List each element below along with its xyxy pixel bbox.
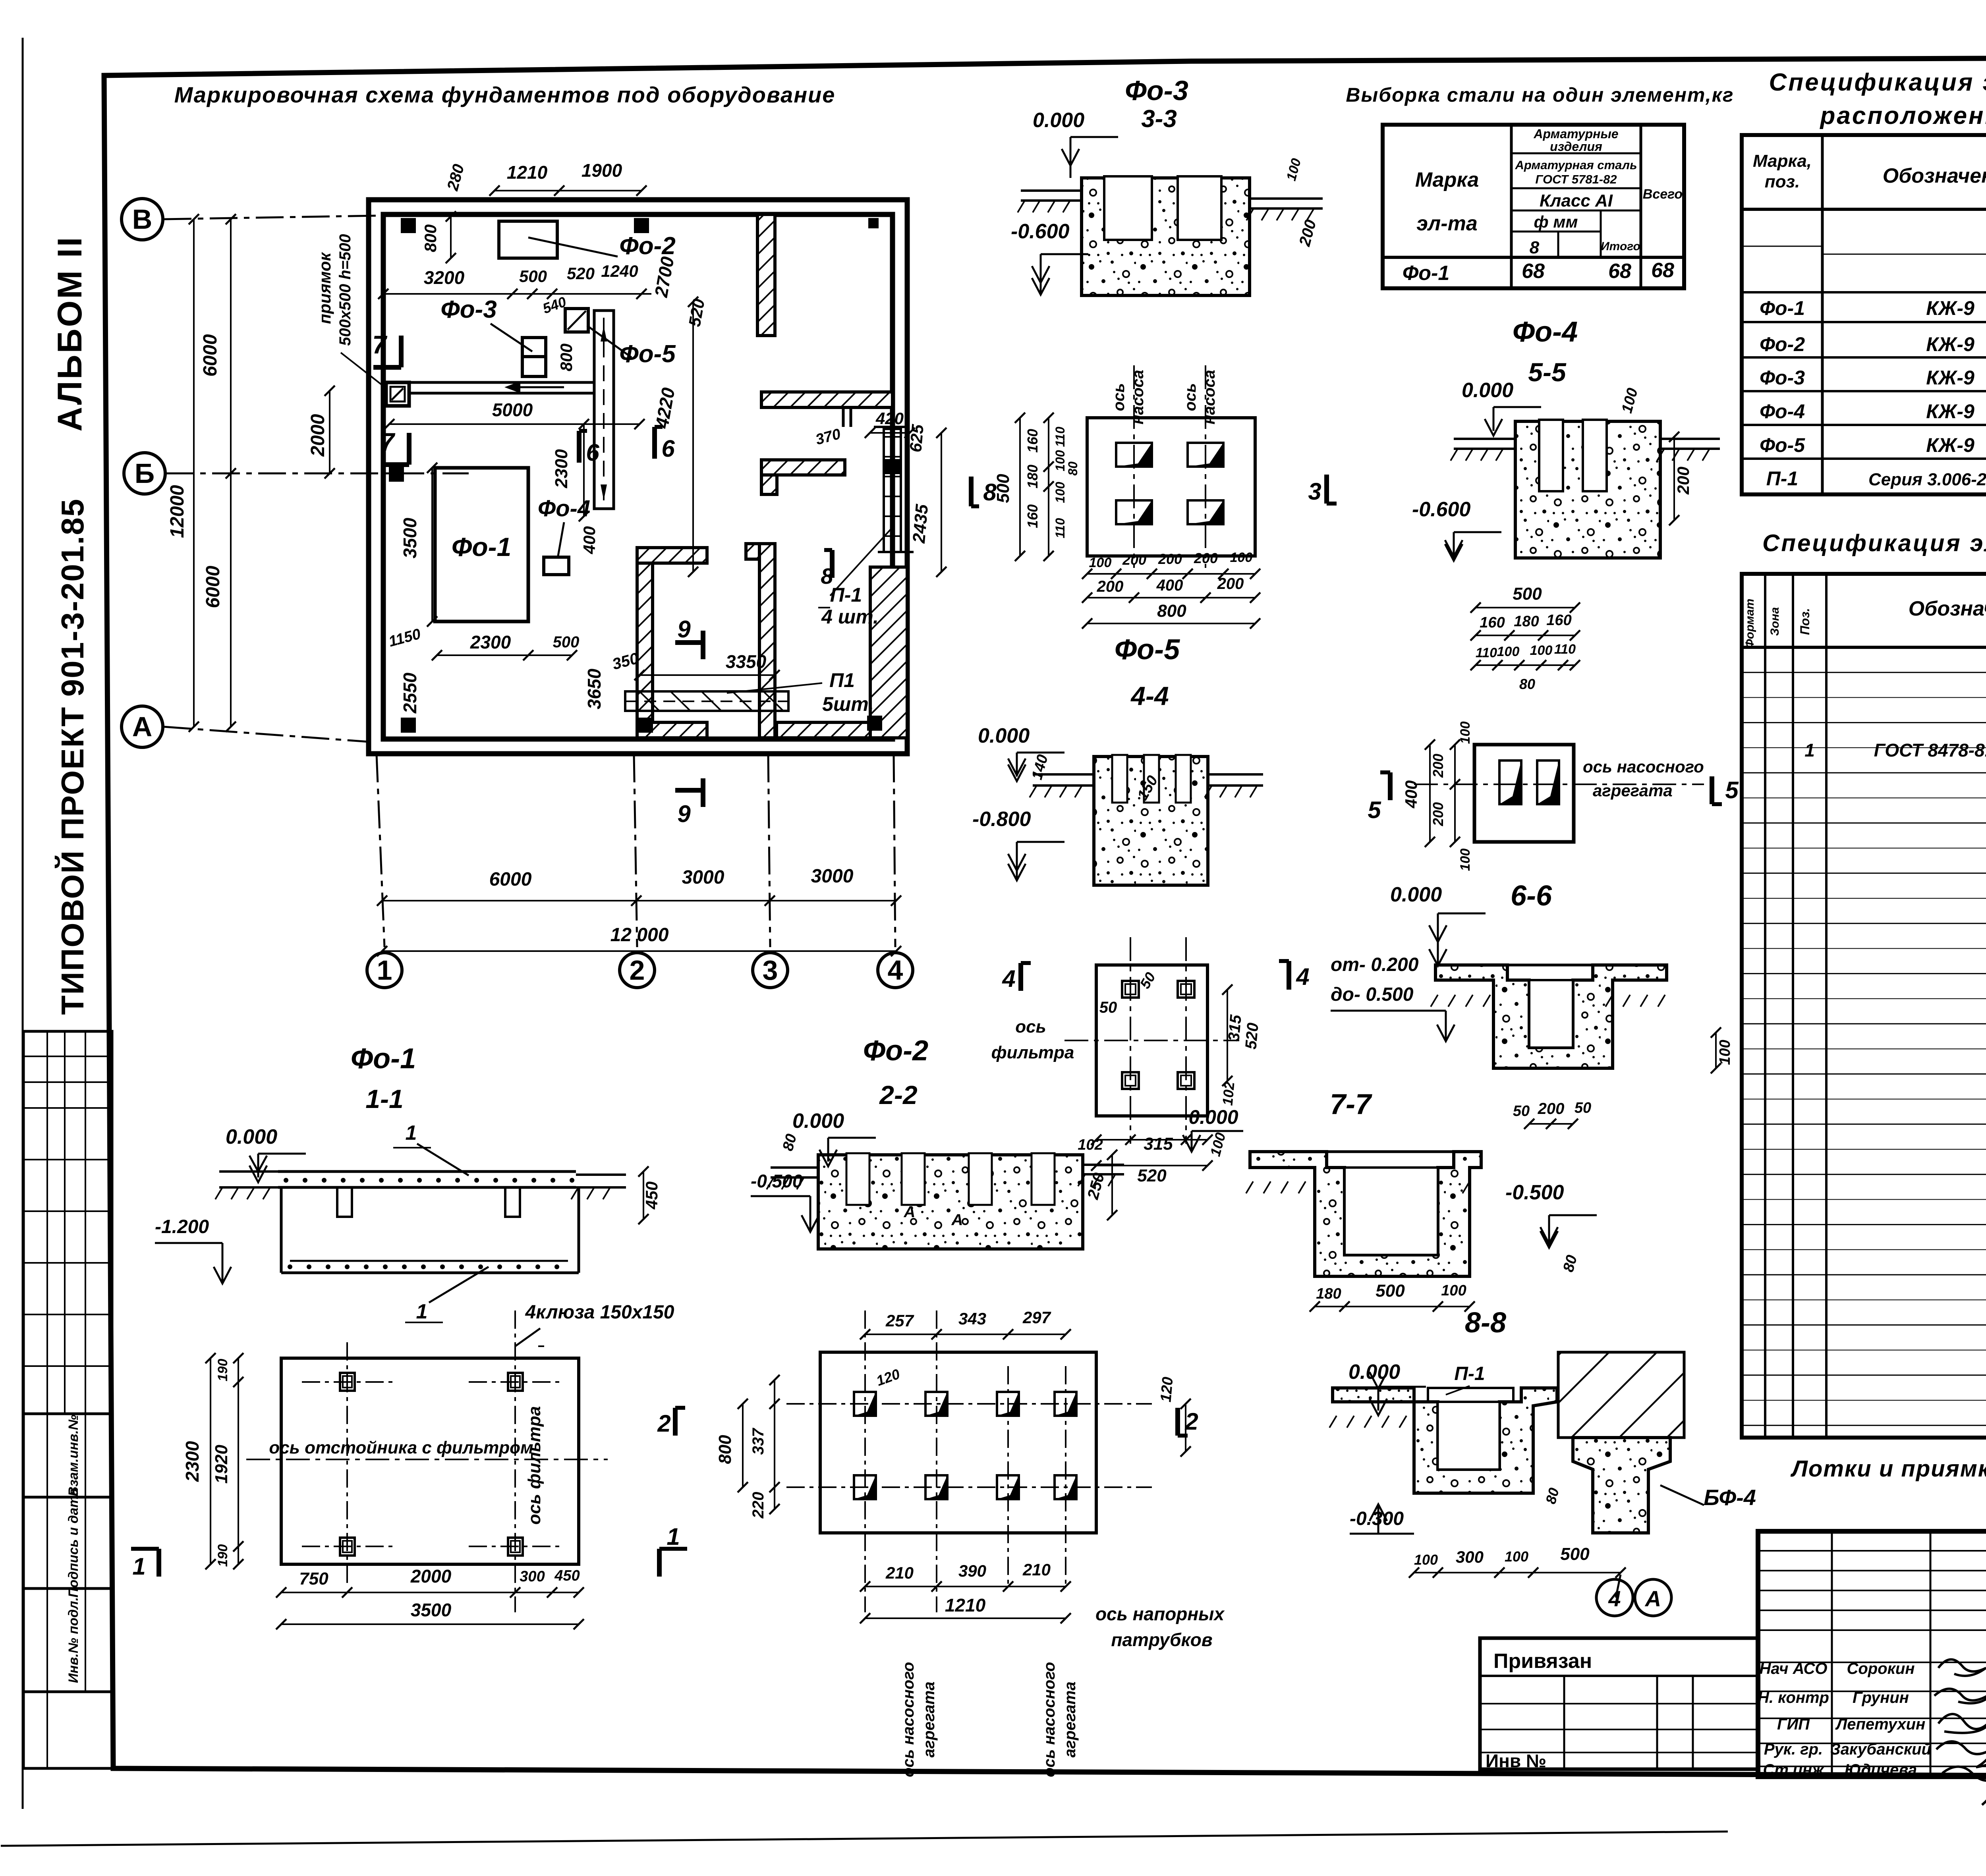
svg-text:180: 180 <box>1316 1285 1341 1302</box>
svg-text:80: 80 <box>1519 676 1535 692</box>
svg-text:1: 1 <box>406 1121 417 1145</box>
svg-text:120: 120 <box>1157 1376 1176 1403</box>
svg-text:1900: 1900 <box>582 160 622 181</box>
channel arrow <box>516 386 564 388</box>
svg-text:100: 100 <box>1053 482 1067 503</box>
svg-text:фильтра: фильтра <box>991 1043 1074 1062</box>
plan Fo-5 bottom dims <box>1087 573 1255 575</box>
svg-text:8: 8 <box>1530 238 1540 257</box>
svg-text:ГИП: ГИП <box>1777 1716 1810 1733</box>
svg-text:приямок: приямок <box>315 252 334 324</box>
svg-text:4: 4 <box>1002 965 1015 992</box>
P-1 slab on trench <box>1428 1388 1513 1402</box>
svg-text:50: 50 <box>1575 1100 1591 1116</box>
bottom dim line total <box>382 950 896 952</box>
svg-text:Фо-2: Фо-2 <box>619 232 675 260</box>
svg-text:агрегата: агрегата <box>1593 781 1673 800</box>
svg-text:500: 500 <box>553 633 580 651</box>
plan filtra rect <box>1096 965 1207 1116</box>
svg-text:160: 160 <box>1024 429 1041 453</box>
svg-text:Юдичева: Юдичева <box>1845 1761 1917 1779</box>
section marker 9 lower <box>675 788 703 793</box>
foundation Fo-2 rectangle <box>499 221 557 258</box>
svg-text:Фо-1: Фо-1 <box>351 1043 416 1075</box>
svg-text:БФ-4: БФ-4 <box>1704 1485 1756 1510</box>
svg-text:750: 750 <box>299 1569 328 1588</box>
svg-text:эл-та: эл-та <box>1416 212 1478 235</box>
svg-text:68: 68 <box>1522 260 1545 283</box>
svg-text:100: 100 <box>1717 1040 1733 1065</box>
svg-text:Арматурные: Арматурные <box>1533 127 1618 141</box>
svg-text:-0.500: -0.500 <box>1505 1181 1564 1204</box>
wall right side L <box>870 567 907 738</box>
svg-text:АЛЬБОМ II: АЛЬБОМ II <box>51 235 89 431</box>
svg-text:ось насосного: ось насосного <box>900 1662 917 1777</box>
masonry wall above <box>1558 1352 1684 1438</box>
svg-text:Лотки и приямки выполнить из: Лотки и приямки выполнить из бетона марк… <box>1790 1456 1986 1482</box>
svg-text:2300: 2300 <box>182 1441 203 1482</box>
svg-text:Привязан: Привязан <box>1493 1650 1592 1673</box>
svg-text:-1.200: -1.200 <box>155 1216 209 1237</box>
section 6-6 floors <box>1435 965 1667 1068</box>
spec1 header row line <box>1742 208 1986 211</box>
svg-text:400: 400 <box>580 526 599 554</box>
axis line 2 <box>634 755 637 947</box>
section 1-1 top slab <box>278 1170 576 1173</box>
plan filtra bottom dims <box>1096 1139 1207 1141</box>
svg-text:1: 1 <box>416 1300 428 1323</box>
svg-text:Фо-4: Фо-4 <box>1760 400 1805 423</box>
svg-text:0.000: 0.000 <box>978 724 1030 747</box>
svg-text:110: 110 <box>1053 518 1067 538</box>
svg-text:поз.: поз. <box>1765 172 1800 191</box>
svg-text:100: 100 <box>1053 450 1067 471</box>
svg-text:2-2: 2-2 <box>879 1080 918 1110</box>
section 3-3 floor right <box>1250 197 1323 200</box>
svg-text:Арматурная сталь: Арматурная сталь <box>1515 158 1637 172</box>
svg-text:КЖ-9: КЖ-9 <box>1926 434 1974 456</box>
svg-text:КЖ-9: КЖ-9 <box>1926 400 1974 423</box>
wall T right middle horizontal <box>761 392 893 407</box>
svg-text:5шт.: 5шт. <box>822 693 874 715</box>
svg-text:1: 1 <box>1804 740 1815 760</box>
svg-text:102: 102 <box>1078 1137 1103 1153</box>
svg-text:Марка: Марка <box>1415 168 1479 191</box>
svg-text:1920: 1920 <box>212 1445 231 1484</box>
axis line A <box>164 727 369 742</box>
Fo-1 plan left dims <box>210 1358 211 1564</box>
svg-text:ось насосного: ось насосного <box>1583 757 1704 776</box>
left dim line outer <box>193 219 195 727</box>
svg-text:П-1: П-1 <box>830 584 862 606</box>
svg-text:0.000: 0.000 <box>226 1125 277 1148</box>
svg-text:2435: 2435 <box>909 503 932 544</box>
sidebar small stamp grid <box>23 1031 112 1414</box>
svg-text:500: 500 <box>993 474 1013 503</box>
section 3-3 floor left <box>1021 189 1082 192</box>
svg-text:102: 102 <box>1219 1081 1238 1106</box>
section marker 7 lower <box>407 433 411 465</box>
section 2-2 floor left <box>771 1166 818 1169</box>
svg-text:68: 68 <box>1608 260 1631 283</box>
sidebar box Podpis i data <box>23 1497 112 1588</box>
plan dim 2300 bottom <box>437 654 572 656</box>
column black squares <box>401 218 416 233</box>
svg-text:9: 9 <box>677 616 691 643</box>
title block outer <box>1758 1531 1986 1777</box>
svg-text:110: 110 <box>1554 642 1576 657</box>
spec2 thin row lines <box>1742 672 1986 673</box>
svg-text:210: 210 <box>1022 1560 1051 1579</box>
plan dim 1210 1900 <box>495 190 641 191</box>
svg-text:Маркировочная схема фундаменто: Маркировочная схема фундаментов под обор… <box>174 82 836 107</box>
svg-text:180: 180 <box>1514 613 1539 630</box>
marker 5 right <box>1710 776 1714 804</box>
svg-text:315: 315 <box>1225 1014 1245 1042</box>
svg-text:Обозначение: Обозначение <box>1909 597 1986 620</box>
wall hatch top-right vertical <box>757 214 775 336</box>
svg-text:0.000: 0.000 <box>1390 883 1442 906</box>
svg-text:210: 210 <box>885 1563 914 1582</box>
svg-text:изделия: изделия <box>1550 139 1602 154</box>
spec1 box <box>1742 135 1986 494</box>
sidebar box Inv N podl <box>23 1588 112 1692</box>
svg-text:80: 80 <box>1066 461 1080 476</box>
svg-text:520: 520 <box>1242 1022 1262 1050</box>
svg-text:Фо-1: Фо-1 <box>452 532 512 562</box>
svg-text:100: 100 <box>1530 643 1553 658</box>
svg-text:Н. контр: Н. контр <box>1758 1689 1829 1706</box>
section 7-7 body <box>1250 1152 1481 1276</box>
svg-text:200: 200 <box>1674 467 1692 495</box>
svg-text:В: В <box>132 204 153 235</box>
svg-text:520: 520 <box>1137 1166 1167 1185</box>
svg-text:1: 1 <box>377 955 392 986</box>
svg-text:343: 343 <box>958 1309 986 1328</box>
svg-text:5000: 5000 <box>492 400 533 420</box>
svg-text:Зона: Зона <box>1768 607 1781 636</box>
svg-text:А: А <box>1644 1586 1661 1611</box>
svg-text:расположенной на данном листе: расположенной на данном листе <box>1820 102 1986 129</box>
svg-text:160: 160 <box>1480 614 1505 631</box>
svg-text:0.000: 0.000 <box>1462 379 1513 402</box>
svg-text:Фо-5: Фо-5 <box>1115 634 1180 666</box>
svg-text:до- 0.500: до- 0.500 <box>1331 984 1414 1005</box>
section 2-2 concrete <box>818 1155 1083 1249</box>
svg-text:Нач АСО: Нач АСО <box>1760 1660 1828 1677</box>
marker 2 left <box>673 1408 678 1436</box>
svg-text:-0.800: -0.800 <box>972 808 1031 831</box>
svg-text:Ст.инж: Ст.инж <box>1763 1761 1825 1779</box>
svg-text:6000: 6000 <box>203 566 224 608</box>
svg-text:0.000: 0.000 <box>792 1110 844 1133</box>
section marker 9 upper <box>675 640 703 645</box>
P-1 ladder right side <box>884 429 901 552</box>
svg-text:Формат: Формат <box>1743 598 1756 648</box>
marker 1 bottom-right <box>657 1549 662 1577</box>
svg-text:ось: ось <box>1015 1017 1046 1036</box>
svg-text:3000: 3000 <box>811 866 854 887</box>
section 7-7 bottom dims <box>1315 1306 1470 1307</box>
svg-text:68: 68 <box>1651 259 1674 282</box>
svg-text:Фо-3: Фо-3 <box>440 296 496 323</box>
foundation Fo-4 rectangle <box>544 557 569 575</box>
Fo-4 plan axis line <box>1414 784 1704 785</box>
svg-text:2: 2 <box>1184 1408 1198 1435</box>
svg-text:300: 300 <box>1456 1548 1484 1566</box>
svg-text:Спецификация элементов к марки: Спецификация элементов к маркировочной с… <box>1769 69 1986 96</box>
plan Fo-5 slots <box>1116 443 1152 467</box>
section marker 8 plan <box>830 550 835 578</box>
Fo-2 plan left dims <box>742 1404 744 1487</box>
svg-text:300: 300 <box>520 1568 545 1585</box>
svg-text:200: 200 <box>1097 578 1124 595</box>
pit priamok <box>386 382 409 406</box>
Fo-2 plan axis lines <box>864 1310 866 1612</box>
svg-text:Обозначение: Обозначение <box>1883 164 1986 187</box>
svg-text:6: 6 <box>586 439 599 466</box>
svg-text:ф мм: ф мм <box>1534 212 1578 231</box>
svg-text:9: 9 <box>677 801 691 827</box>
wall right middle lower <box>761 460 845 475</box>
plan Fo-5 left dims <box>1019 418 1021 556</box>
svg-text:160: 160 <box>1024 504 1041 528</box>
svg-text:160: 160 <box>1546 612 1571 629</box>
svg-text:6000: 6000 <box>200 334 221 376</box>
svg-text:ГОСТ 8478-81: ГОСТ 8478-81 <box>1874 740 1986 760</box>
axis line V <box>164 215 401 219</box>
svg-text:2000: 2000 <box>307 414 328 457</box>
svg-text:Фо-3: Фо-3 <box>1125 75 1188 106</box>
svg-text:1240: 1240 <box>601 262 638 280</box>
marker 1 bottom-left <box>156 1549 161 1577</box>
svg-text:агрегата: агрегата <box>920 1681 938 1757</box>
Fo-2 plan bottom dims <box>865 1586 1066 1587</box>
svg-text:Серия 3.006-2 в II-2: Серия 3.006-2 в II-2 <box>1868 470 1986 489</box>
svg-text:Сорокин: Сорокин <box>1847 1660 1915 1677</box>
Fo-4 plan rect <box>1474 745 1574 842</box>
Fo-2 plan top dims <box>865 1334 1066 1335</box>
svg-text:Фо-5: Фо-5 <box>1760 434 1805 456</box>
svg-text:П1: П1 <box>829 669 855 691</box>
spec1 row lines <box>1742 291 1986 293</box>
svg-text:7: 7 <box>380 428 396 456</box>
svg-text:400: 400 <box>1402 780 1420 809</box>
svg-text:520: 520 <box>567 264 595 283</box>
svg-text:Марка,: Марка, <box>1753 151 1812 171</box>
sidebar box Vzam inv <box>23 1414 112 1497</box>
svg-text:5-5: 5-5 <box>1528 357 1567 387</box>
svg-text:1: 1 <box>132 1553 145 1580</box>
axis line 4 <box>894 755 895 947</box>
svg-text:800: 800 <box>557 344 576 371</box>
svg-text:200: 200 <box>1217 575 1244 593</box>
svg-text:4-4: 4-4 <box>1130 681 1169 710</box>
foundation Fo-3 squares <box>522 338 546 357</box>
svg-text:Всего: Всего <box>1643 187 1683 202</box>
svg-text:800: 800 <box>715 1435 735 1464</box>
svg-text:4: 4 <box>1296 963 1309 990</box>
section 3-3 concrete body <box>1082 178 1250 295</box>
Fo-1 plan rect <box>281 1358 579 1564</box>
svg-text:400: 400 <box>1156 577 1183 594</box>
svg-text:200: 200 <box>1122 552 1146 568</box>
axis circle A <box>122 706 163 747</box>
svg-text:100: 100 <box>1441 1282 1466 1299</box>
svg-text:500: 500 <box>1376 1281 1405 1301</box>
svg-text:297: 297 <box>1022 1308 1051 1327</box>
svg-text:КЖ-9: КЖ-9 <box>1926 333 1974 355</box>
channel from pit <box>409 381 594 384</box>
leader 1 upper <box>417 1144 469 1175</box>
svg-text:ось отстойника с фильтром: ось отстойника с фильтром <box>269 1438 533 1457</box>
Fo-4 plan slots <box>1499 760 1521 804</box>
svg-text:П-1: П-1 <box>1766 467 1798 490</box>
P-1 channel plates in plan <box>625 691 788 711</box>
marker 4 left <box>1018 963 1023 991</box>
svg-text:Грунин: Грунин <box>1853 1689 1909 1706</box>
svg-text:патрубков: патрубков <box>1111 1629 1212 1650</box>
svg-text:Фо-2: Фо-2 <box>863 1035 928 1067</box>
svg-text:ось напорных: ось напорных <box>1095 1604 1225 1624</box>
section 6-6 inner <box>1529 980 1573 1048</box>
svg-text:Фо-1: Фо-1 <box>1403 262 1450 285</box>
svg-text:200: 200 <box>1538 1100 1565 1117</box>
svg-text:450: 450 <box>554 1567 580 1584</box>
svg-text:100: 100 <box>1458 849 1473 871</box>
svg-text:Спецификация элементов монолит: Спецификация элементов монолитной констр… <box>1762 530 1986 556</box>
svg-text:800: 800 <box>1157 601 1186 621</box>
svg-text:1: 1 <box>667 1523 680 1550</box>
axis line 1 <box>377 755 384 947</box>
svg-text:А: А <box>132 711 153 742</box>
steel table box <box>1383 125 1684 288</box>
plan Fo-5 axes <box>1133 365 1135 568</box>
wall vertical lower right of C <box>759 544 775 738</box>
svg-text:6: 6 <box>661 435 675 462</box>
dim 250 sec2-2 <box>1111 1155 1113 1215</box>
svg-text:Взам.инв.№: Взам.инв.№ <box>66 1415 81 1496</box>
section 8-8 left slab with trench <box>1333 1388 1557 1493</box>
svg-text:2: 2 <box>630 955 645 986</box>
plan dim chain 3200 500 520 1240 <box>383 293 651 295</box>
svg-text:100: 100 <box>1505 1548 1528 1565</box>
sheet edge bottom line <box>1 1832 1728 1846</box>
svg-text:2300: 2300 <box>470 632 511 652</box>
axis circle 4 <box>878 953 913 988</box>
svg-text:3-3: 3-3 <box>1141 105 1177 133</box>
spec2 header bottom <box>1742 646 1986 649</box>
left dim line inner <box>230 219 232 727</box>
svg-text:от- 0.200: от- 0.200 <box>1331 954 1419 975</box>
svg-text:3000: 3000 <box>682 867 724 888</box>
svg-text:Класс АI: Класс АI <box>1540 191 1613 210</box>
svg-text:ГОСТ 5781-82: ГОСТ 5781-82 <box>1535 172 1617 186</box>
svg-text:-0.600: -0.600 <box>1011 220 1070 243</box>
svg-text:190: 190 <box>215 1544 230 1567</box>
svg-text:Фо-3: Фо-3 <box>1760 367 1805 389</box>
svg-text:КЖ-9: КЖ-9 <box>1926 297 1974 319</box>
svg-text:ось фильтра: ось фильтра <box>525 1406 544 1525</box>
svg-text:агрегата: агрегата <box>1061 1681 1079 1757</box>
svg-text:110: 110 <box>1476 645 1497 660</box>
svg-text:50: 50 <box>1513 1103 1530 1119</box>
svg-text:3: 3 <box>1308 478 1321 505</box>
svg-text:2000: 2000 <box>410 1566 452 1586</box>
Fo-1 plan bottom dims <box>281 1592 579 1593</box>
svg-text:315: 315 <box>1144 1134 1173 1154</box>
Fo-1 plan anchors <box>340 1373 355 1391</box>
plan dim 3350 <box>639 674 775 676</box>
marker 5 left <box>1388 772 1393 800</box>
svg-text:А: А <box>951 1211 963 1229</box>
marker 3 left <box>1324 475 1329 504</box>
svg-text:390: 390 <box>958 1561 986 1580</box>
plan filtra axes <box>1130 937 1131 1144</box>
wall bottom right segment <box>777 722 906 738</box>
axis circle V <box>122 199 163 240</box>
svg-text:7-7: 7-7 <box>1330 1089 1372 1120</box>
svg-text:100: 100 <box>1089 555 1112 570</box>
svg-text:Фо-2: Фо-2 <box>1760 333 1805 355</box>
svg-text:6000: 6000 <box>489 869 532 890</box>
svg-text:4: 4 <box>1608 1586 1621 1611</box>
dim line 2000 <box>329 391 330 473</box>
section marker 6 right <box>652 427 657 459</box>
svg-text:ось: ось <box>1110 383 1128 411</box>
svg-text:6-6: 6-6 <box>1511 880 1552 912</box>
svg-text:П-1: П-1 <box>1454 1363 1485 1384</box>
svg-text:625: 625 <box>906 423 927 453</box>
svg-text:-0.300: -0.300 <box>1350 1508 1404 1529</box>
svg-text:500: 500 <box>1560 1544 1590 1564</box>
dim 100 sec6-6 <box>1715 1033 1717 1068</box>
svg-text:12 000: 12 000 <box>610 924 669 946</box>
svg-text:насоса: насоса <box>1201 370 1218 425</box>
Fo-1 plan axis lines <box>302 1381 393 1383</box>
svg-text:220: 220 <box>750 1492 767 1519</box>
sidebar bottom cells <box>23 1692 112 1768</box>
plan dim 800 top <box>450 216 452 258</box>
svg-text:110: 110 <box>1053 427 1067 447</box>
svg-text:4: 4 <box>888 955 903 986</box>
left sign grid <box>1758 1550 1986 1552</box>
svg-text:Лепетухин: Лепетухин <box>1835 1716 1926 1733</box>
svg-text:200: 200 <box>1430 802 1446 826</box>
circles 4 A bottom <box>1616 1575 1621 1598</box>
section 4-4 concrete <box>1094 757 1208 885</box>
svg-text:1-1: 1-1 <box>365 1084 403 1114</box>
svg-text:1210: 1210 <box>507 162 548 183</box>
svg-text:5: 5 <box>1725 777 1739 803</box>
svg-text:450: 450 <box>642 1181 661 1210</box>
svg-text:200: 200 <box>1430 754 1446 778</box>
svg-text:8: 8 <box>821 564 833 589</box>
foundation Fo-1 rectangle <box>435 468 528 621</box>
axis circle 1 <box>367 953 402 988</box>
svg-text:5: 5 <box>1368 797 1381 823</box>
svg-text:200: 200 <box>1194 550 1218 566</box>
section 5-5 floor left <box>1454 438 1515 440</box>
Fo-4 plan left dims <box>1429 745 1431 842</box>
section marker 7 upper <box>399 336 404 367</box>
axis circle 3 <box>753 953 788 988</box>
svg-text:100: 100 <box>1458 722 1473 744</box>
svg-text:Выборка стали на один элемент,: Выборка стали на один элемент,кг <box>1346 84 1734 106</box>
svg-text:3500: 3500 <box>411 1600 452 1620</box>
svg-text:Фо-4: Фо-4 <box>1513 316 1578 348</box>
svg-text:2: 2 <box>657 1410 670 1437</box>
